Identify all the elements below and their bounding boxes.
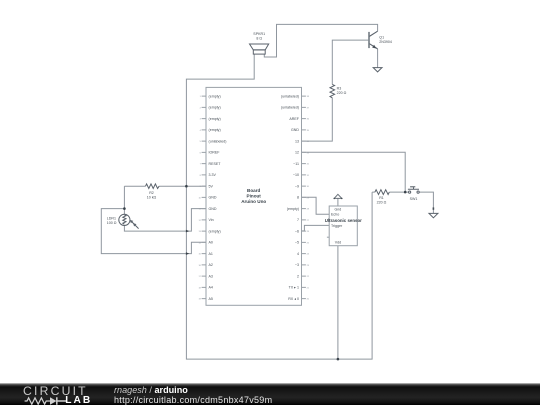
svg-text:17: 17 <box>198 276 201 278</box>
svg-text:5V: 5V <box>209 184 214 188</box>
svg-text:1: 1 <box>200 96 202 98</box>
svg-text:(empty): (empty) <box>209 94 221 98</box>
svg-text:GND: GND <box>209 196 217 200</box>
svg-text:~6: ~6 <box>295 229 299 233</box>
svg-text:2: 2 <box>297 274 299 278</box>
svg-text:(empty): (empty) <box>209 117 221 121</box>
svg-text:5: 5 <box>200 141 202 143</box>
svg-text:32: 32 <box>307 164 310 166</box>
svg-text:12: 12 <box>198 220 201 222</box>
svg-text:12: 12 <box>295 151 299 155</box>
svg-text:IOREF: IOREF <box>209 151 221 155</box>
svg-text:7: 7 <box>297 218 299 222</box>
svg-text:4: 4 <box>297 252 299 256</box>
svg-text:33: 33 <box>307 152 310 154</box>
svg-text:(unlabeled): (unlabeled) <box>281 94 299 98</box>
svg-text:4: 4 <box>200 130 202 132</box>
svg-text:20: 20 <box>307 299 310 301</box>
svg-text:3.3V: 3.3V <box>209 173 217 177</box>
svg-text:28: 28 <box>307 209 310 211</box>
svg-text:25: 25 <box>307 242 310 244</box>
svg-text:~5: ~5 <box>295 241 299 245</box>
svg-text:13: 13 <box>198 231 201 233</box>
svg-text:(empty): (empty) <box>209 106 221 110</box>
svg-text:(unlabeled): (unlabeled) <box>209 139 227 143</box>
svg-text:~11: ~11 <box>293 162 299 166</box>
svg-text:16: 16 <box>198 265 201 267</box>
svg-text:27: 27 <box>307 220 310 222</box>
svg-text:8: 8 <box>200 175 202 177</box>
svg-text:AREF: AREF <box>289 117 299 121</box>
svg-text:(empty): (empty) <box>209 229 221 233</box>
svg-text:19: 19 <box>198 299 201 301</box>
svg-text:GND: GND <box>291 128 299 132</box>
svg-text:~10: ~10 <box>293 173 299 177</box>
svg-text:30: 30 <box>307 186 310 188</box>
svg-text:TX ▸ 1: TX ▸ 1 <box>289 286 299 290</box>
svg-text:9: 9 <box>200 186 202 188</box>
svg-text:38: 38 <box>307 96 310 98</box>
svg-text:6: 6 <box>200 152 202 154</box>
svg-text:~9: ~9 <box>295 184 299 188</box>
svg-text:A3: A3 <box>209 274 213 278</box>
svg-text:11: 11 <box>199 209 202 211</box>
svg-text:3: 3 <box>200 119 202 121</box>
svg-text:29: 29 <box>307 197 310 199</box>
svg-text:A0: A0 <box>209 241 213 245</box>
svg-text:GND: GND <box>209 207 217 211</box>
svg-text:A2: A2 <box>209 263 213 267</box>
svg-text:RESET: RESET <box>209 162 222 166</box>
svg-text:34: 34 <box>307 141 310 143</box>
svg-text:35: 35 <box>307 130 310 132</box>
svg-text:15: 15 <box>198 254 201 256</box>
svg-text:26: 26 <box>307 231 310 233</box>
svg-text:23: 23 <box>307 265 310 267</box>
svg-text:24: 24 <box>307 254 310 256</box>
svg-text:7: 7 <box>200 164 202 166</box>
svg-text:(empty): (empty) <box>287 207 299 211</box>
svg-text:(empty): (empty) <box>209 128 221 132</box>
svg-text:Vin: Vin <box>209 218 214 222</box>
svg-text:A4: A4 <box>209 286 213 290</box>
svg-text:8: 8 <box>297 196 299 200</box>
svg-text:A1: A1 <box>209 252 213 256</box>
svg-text:36: 36 <box>307 119 310 121</box>
svg-text:(unlabeled): (unlabeled) <box>281 106 299 110</box>
svg-text:21: 21 <box>307 287 310 289</box>
svg-text:A5: A5 <box>209 297 213 301</box>
svg-text:~3: ~3 <box>295 263 299 267</box>
svg-text:RX ◂ 0: RX ◂ 0 <box>288 297 299 301</box>
svg-text:14: 14 <box>198 242 201 244</box>
svg-text:10: 10 <box>198 197 201 199</box>
svg-text:13: 13 <box>295 139 299 143</box>
svg-text:18: 18 <box>198 287 201 289</box>
svg-text:37: 37 <box>307 107 310 109</box>
svg-text:2: 2 <box>200 107 202 109</box>
svg-text:31: 31 <box>307 175 310 177</box>
svg-text:22: 22 <box>307 276 310 278</box>
